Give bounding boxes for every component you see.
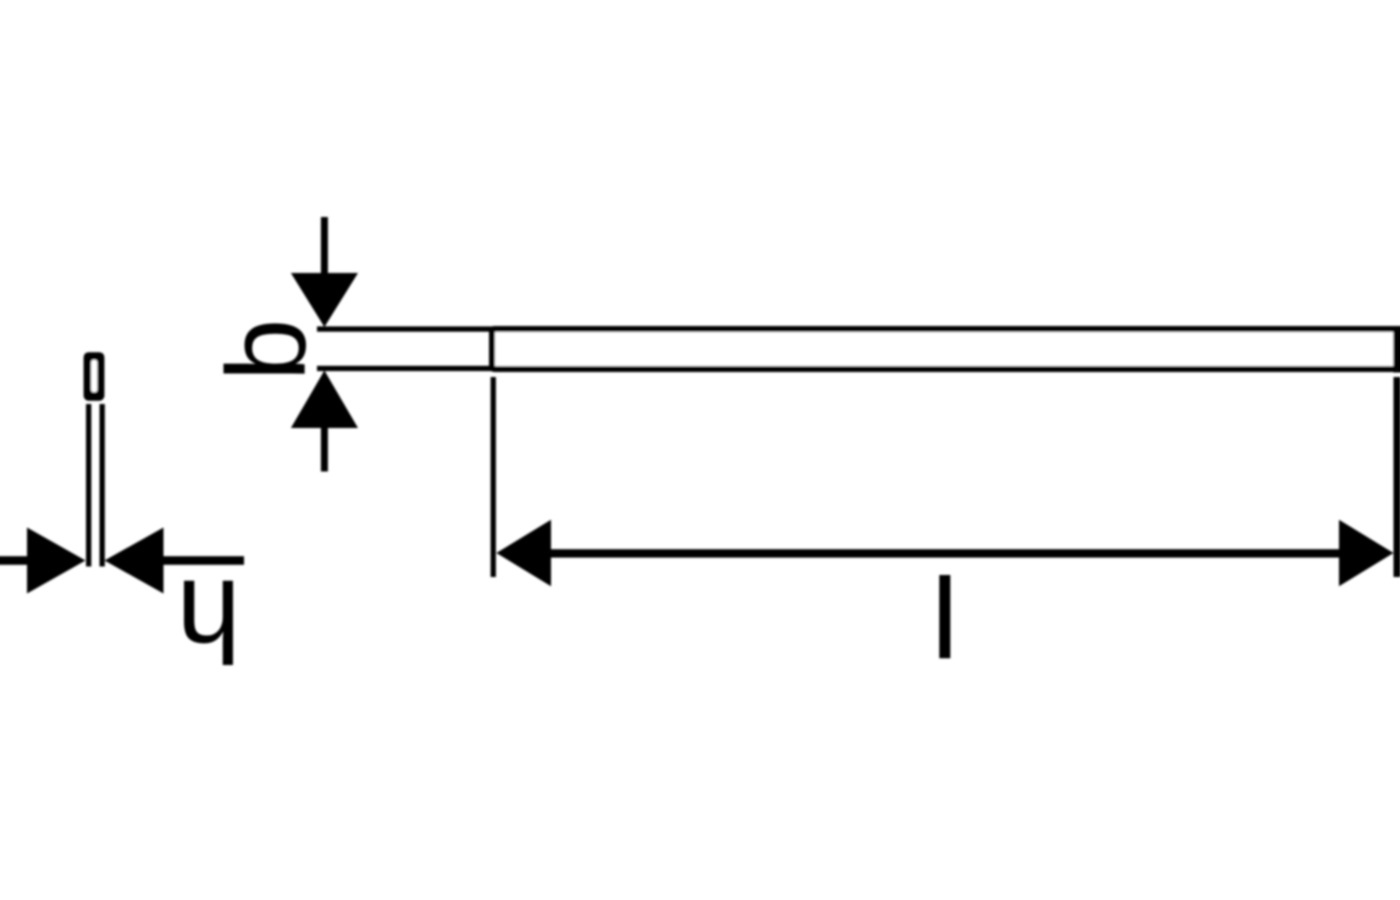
arrow b upper (pointing down) — [291, 217, 358, 327]
end view: strip edge right face — [100, 404, 105, 567]
arrow b lower (pointing up) — [291, 371, 358, 472]
end view: slotted eyelet at top — [84, 352, 105, 401]
width dimension right shaft — [164, 556, 245, 565]
flat strip side view (outline rectangle) — [492, 329, 1397, 369]
width dimension left shaft — [0, 556, 27, 565]
width dimension right arrowhead (pointing left) — [105, 528, 164, 594]
end view: strip edge left face — [86, 404, 91, 567]
extension line l left — [491, 377, 496, 577]
arrowhead l left — [496, 520, 551, 586]
arrowhead l right — [1339, 520, 1394, 586]
width dimension left arrowhead (pointing right) — [27, 528, 86, 594]
extension line b top — [317, 326, 492, 331]
dimension line l — [549, 549, 1341, 557]
extension line b bottom — [317, 366, 492, 371]
extension line l right — [1394, 377, 1400, 577]
svg-text:l: l — [932, 555, 957, 681]
svg-text:h: h — [176, 556, 241, 686]
strip right end edge — [1393, 326, 1400, 373]
svg-text:b: b — [204, 319, 329, 381]
